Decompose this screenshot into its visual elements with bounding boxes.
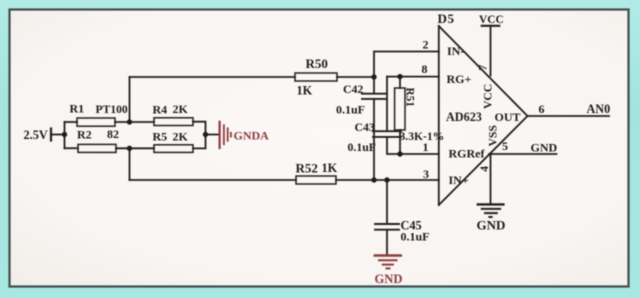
svg-text:RGRef: RGRef: [449, 146, 486, 160]
svg-text:VSS: VSS: [487, 125, 500, 146]
resistor R2: [78, 144, 116, 152]
svg-text:AN0: AN0: [587, 102, 611, 116]
wire pin 4 down: [490, 154, 492, 203]
connector 2.5V: [50, 129, 52, 141]
svg-text:1K: 1K: [322, 161, 338, 175]
node: C45 tap on IN+ net: [384, 177, 389, 182]
svg-text:VCC: VCC: [479, 14, 504, 26]
wire pin8 node to C43: [386, 77, 388, 131]
wire node to C45: [386, 180, 388, 224]
svg-text:0.1uF: 0.1uF: [401, 230, 430, 244]
svg-text:R4: R4: [153, 103, 168, 117]
svg-text:GNDA: GNDA: [234, 129, 270, 143]
svg-text:6: 6: [539, 102, 545, 116]
svg-text:5: 5: [502, 139, 508, 153]
node: bridge bottom mid: [127, 146, 132, 151]
svg-text:2K: 2K: [173, 130, 189, 144]
wire R50 to node: [337, 76, 374, 78]
svg-text:1K: 1K: [297, 84, 313, 98]
wire bridge bottom node down: [129, 148, 131, 180]
resistor R52: [296, 176, 336, 184]
svg-text:OUT: OUT: [495, 110, 521, 124]
svg-text:R2: R2: [77, 128, 92, 142]
svg-text:2: 2: [423, 38, 429, 52]
svg-text:IN-: IN-: [447, 44, 464, 58]
wire pin 6 OUT: [528, 115, 610, 117]
svg-text:IN+: IN+: [449, 173, 469, 187]
svg-text:R50: R50: [306, 56, 328, 71]
svg-text:0.1uF: 0.1uF: [336, 103, 365, 117]
svg-text:3: 3: [423, 167, 429, 181]
resistor R50: [295, 73, 337, 81]
wire C45 to GND: [386, 230, 388, 255]
node: R51 top on pin8: [397, 74, 402, 79]
capacitor C45: [375, 224, 399, 230]
resistor R4: [154, 118, 193, 126]
svg-text:R52: R52: [296, 161, 318, 176]
wire 2.5V to node: [51, 134, 65, 136]
wire to pin 2: [374, 52, 439, 78]
svg-text:GND: GND: [375, 272, 403, 286]
node: R50 output / IN-: [371, 74, 376, 79]
node: GNDA node: [203, 132, 208, 137]
wire to R50: [130, 76, 296, 78]
svg-text:1: 1: [423, 140, 429, 154]
ground symbol pin 4: [478, 204, 504, 217]
power VCC pin 7: [482, 25, 499, 27]
resistor R5: [154, 145, 193, 153]
wire node to C42: [373, 77, 375, 93]
wire left node to R2: [65, 147, 79, 149]
wire pin 8: [387, 76, 439, 78]
svg-text:AD623: AD623: [446, 110, 482, 124]
wire R52 to pin 3: [336, 179, 439, 181]
node: R51 bottom on pin1: [397, 151, 402, 156]
wire left node to R1: [65, 121, 78, 123]
svg-text:VCC: VCC: [482, 84, 495, 109]
svg-text:2.5V: 2.5V: [24, 128, 48, 142]
node: 2.5V left bridge node: [62, 132, 67, 137]
op-amp U1 AD623 triangle: [439, 26, 528, 205]
svg-text:82: 82: [107, 127, 119, 141]
svg-text:D5: D5: [438, 11, 455, 26]
wire R2 to R5: [116, 147, 154, 149]
svg-text:R51: R51: [404, 88, 416, 108]
svg-text:PT100: PT100: [96, 103, 128, 116]
wire bridge top node up: [129, 77, 131, 122]
capacitor C43: [373, 131, 401, 137]
wire C43 to pin 1: [387, 137, 439, 154]
svg-text:R5: R5: [153, 130, 168, 144]
node: bridge top mid: [127, 119, 132, 124]
resistor R51: [395, 77, 405, 154]
wire pin 5 GND: [489, 153, 557, 155]
svg-text:8: 8: [422, 62, 428, 76]
wire R1 to R4: [115, 121, 154, 123]
wire C42 to IN+ net: [373, 99, 375, 180]
svg-text:C42: C42: [343, 82, 363, 96]
wire node to GNDA symbol: [206, 134, 219, 136]
wire R5 to GNDA corner: [193, 135, 206, 149]
ground GNDA symbol: [220, 122, 231, 148]
ground GND symbol (C45, analog): [375, 256, 401, 269]
svg-text:R1: R1: [70, 102, 85, 116]
wire to R52: [130, 179, 297, 181]
svg-text:C43: C43: [355, 120, 375, 134]
svg-text:GND: GND: [531, 141, 558, 155]
junction dots: [62, 74, 403, 183]
svg-text:4: 4: [479, 166, 491, 172]
wire bridge left vertical: [64, 122, 66, 148]
svg-text:0.1uF: 0.1uF: [348, 140, 377, 154]
capacitor C42: [362, 94, 386, 99]
svg-text:7: 7: [478, 65, 490, 71]
svg-text:GND: GND: [477, 218, 506, 233]
wire R4 to GNDA corner: [193, 122, 206, 135]
resistor R1: [77, 118, 115, 126]
svg-text:2K: 2K: [173, 102, 189, 116]
node: C42 on IN+ net: [371, 177, 376, 182]
svg-text:RG+: RG+: [447, 72, 472, 86]
